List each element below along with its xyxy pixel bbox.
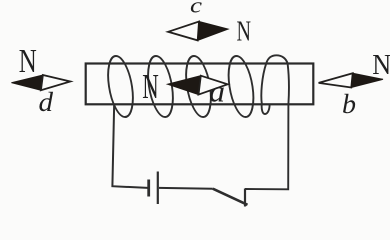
battery B1: short plate (left)	[147, 180, 150, 197]
switch S1: right terminal riser	[244, 189, 246, 207]
svg-text:N: N	[19, 43, 37, 80]
coil winding 1	[104, 56, 136, 117]
solenoid core rectangle	[86, 64, 314, 105]
compass needle c: black east half	[198, 22, 228, 41]
wire: left lead from coil down to bottom-left corner, then to battery	[112, 103, 147, 188]
svg-text:N: N	[237, 16, 252, 47]
compass needle c (above coil): white west half	[168, 22, 199, 41]
coil winding 2	[144, 56, 176, 117]
svg-text:N: N	[372, 49, 390, 81]
wire: battery to switch pivot	[159, 187, 213, 190]
compass needle a (inside coil): black west half	[168, 76, 201, 95]
compass needle d: white east half	[41, 75, 70, 90]
coil winding 5 with right lead wire down to switch	[245, 55, 289, 189]
svg-text:d: d	[39, 87, 54, 117]
svg-text:c: c	[190, 0, 202, 18]
svg-text:b: b	[342, 89, 356, 119]
compass needle b (right of coil): white west half	[319, 73, 353, 87]
switch S1: open blade	[213, 189, 248, 205]
compass needle d (left of coil): black west half	[11, 75, 43, 90]
coil winding 3	[182, 56, 214, 117]
compass needle a: white east half	[199, 76, 228, 95]
svg-text:a: a	[209, 74, 225, 109]
battery B1: long plate (right)	[157, 172, 159, 205]
coil winding 4	[225, 56, 257, 117]
svg-text:N: N	[142, 67, 159, 106]
compass needle b: black east half	[351, 73, 383, 87]
